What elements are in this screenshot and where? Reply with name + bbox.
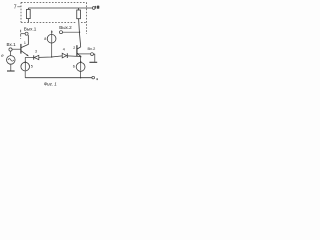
svg-text:6: 6 (73, 65, 75, 69)
current source 8: arrowhead (51, 30, 53, 32)
wire: node down to current source 6 (80, 57, 82, 63)
ground (left) (7, 70, 15, 72)
wire: input 2 to ground (93, 54, 94, 62)
IC dashed box 7: right edge (85, 2, 87, 34)
transistor Q1: collector diagonal (21, 44, 28, 47)
ground (right) (89, 61, 97, 63)
label at bottom right pin (96, 78, 98, 80)
transistor Q2: base bar (76, 45, 78, 56)
diode 3: triangle (points left) (34, 55, 39, 59)
current source 6: arrowhead (80, 60, 82, 62)
terminal: top right supply pin (92, 7, 95, 10)
wire: R2 bottom lead / right collector line (79, 19, 81, 47)
terminal: bottom right supply pin (92, 76, 95, 79)
wire: current source 6 bottom lead (80, 71, 82, 77)
leader line for label 7 (17, 6, 20, 8)
wire: R1 top lead (27, 8, 29, 9)
svg-text:1: 1 (24, 41, 26, 45)
transistor Q1: base bar (20, 44, 22, 54)
IC dashed box 7: left edge (20, 2, 22, 22)
wire: input 2 base lead (77, 53, 90, 55)
junction dot center (51, 56, 52, 57)
wire: R2 top lead (78, 8, 80, 10)
wire: output 2 tap (63, 31, 80, 33)
transistor Q1: emitter diagonal (21, 51, 28, 56)
wire: top supply rail (28, 7, 92, 9)
svg-text:Вых.1: Вых.1 (24, 27, 37, 32)
resistor R1 (left collector load) (27, 9, 31, 18)
wire: output 1 tap (21, 33, 26, 35)
junction dot right node (80, 56, 81, 57)
current source 6: circle (76, 63, 85, 72)
AC source e: sine symbol (8, 59, 14, 62)
transistor Q2: collector diagonal (77, 47, 80, 49)
wire: current source 8 bottom lead (51, 43, 53, 57)
AC source e: circle (7, 56, 16, 65)
svg-text:Вых.2: Вых.2 (59, 25, 72, 30)
current source 8: arrow shaft (51, 32, 53, 43)
junction dot bottom rail (80, 77, 81, 78)
IC dashed box 7: left edge lower dashes (20, 30, 22, 39)
terminal: input 2 (91, 53, 94, 56)
current source 5: arrow shaft (24, 62, 26, 70)
current source 5: arrowhead (24, 60, 26, 62)
diode 4: triangle (points right) (62, 53, 66, 58)
terminal: output 2 (60, 31, 63, 34)
IC dashed box 7: bottom edge right part (81, 21, 86, 23)
current source 5: circle (21, 62, 30, 71)
wire: center line between diodes (39, 56, 62, 58)
svg-text:3: 3 (35, 50, 37, 54)
wire: AC source bottom lead (10, 64, 12, 70)
svg-text:Вх.1: Вх.1 (7, 42, 17, 47)
svg-text:Вх.2: Вх.2 (88, 46, 96, 51)
junction dot output 2 (79, 32, 80, 33)
wire: left emitter node line (25, 56, 33, 58)
transistor Q1: emitter arrowhead (26, 54, 28, 56)
svg-text:8: 8 (44, 37, 46, 41)
diode 4: cathode bar (66, 53, 68, 58)
transistor Q2: emitter arrowhead (79, 55, 81, 57)
resistor R2 (right collector load) (77, 10, 81, 19)
terminal: output 1 (25, 32, 28, 35)
transistor Q2: emitter diagonal (77, 53, 81, 57)
wire: left collector line (27, 35, 29, 44)
wire: input 1 down to source (10, 51, 12, 56)
label at top right pin (95, 6, 96, 9)
svg-text:Фиг. 1: Фиг. 1 (44, 82, 58, 87)
wire: right emitter node line (68, 55, 81, 58)
current source 8: circle (47, 34, 56, 43)
terminal: input 1 (9, 48, 12, 51)
wire: bottom supply rail (25, 77, 92, 79)
svg-text:е: е (1, 53, 4, 58)
wire: current source 5 bottom lead (24, 71, 26, 78)
wire: R1 bottom lead (27, 19, 29, 23)
svg-text:7: 7 (14, 5, 17, 11)
current source 6: arrow shaft (80, 62, 82, 71)
svg-text:4: 4 (63, 48, 65, 52)
svg-text:2: 2 (73, 46, 75, 50)
IC dashed box 7: top edge (21, 1, 86, 3)
IC dashed box 7: bottom edge left part (21, 21, 77, 23)
wire: input 1 base lead (12, 48, 21, 50)
diode 3: cathode bar (33, 55, 35, 59)
svg-text:5: 5 (31, 65, 33, 69)
current source 5: top connection (24, 57, 26, 62)
